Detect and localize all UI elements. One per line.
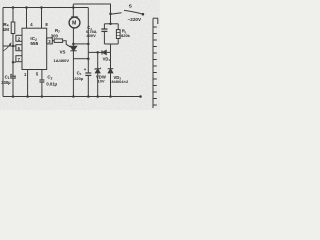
op-amp U1: IC2 555 timer box [16,28,52,69]
switch S [124,10,143,14]
neighbor figure edge (adjacent schematic sliver) [153,18,158,108]
motor M [69,17,80,28]
svg-text:330µ: 330µ [1,80,11,85]
svg-text:300: 300 [51,34,59,39]
svg-text:400V: 400V [86,33,96,38]
label R1 820k [121,29,131,39]
wire C4 bottom [103,31,105,44]
wire rail drop right [87,8,89,73]
svg-text:VS: VS [60,49,66,54]
wire top rail [3,7,88,9]
pin number labels [18,22,52,77]
label R4 [3,22,10,32]
wire R1 bottom [117,39,119,45]
capacitor C5 220u electrolytic [85,73,91,75]
svg-text:C2: C2 [47,75,52,81]
wire dropper drop to VD1 [110,44,112,52]
svg-text:1N4004×2: 1N4004×2 [110,79,129,84]
wire pin8 [41,8,43,29]
capacitor C2 0.01u [39,80,44,82]
potentiometer R4 wiper arrow [3,42,12,50]
node dots [12,6,142,98]
wire C2 bottom [41,82,43,97]
wire SCR cathode [72,51,74,97]
wire C5 bottom [87,75,89,96]
pin box 2 [16,35,22,41]
zener VDW [95,68,101,73]
potentiometer R4 1M body [11,22,15,34]
wire pot branch [12,8,14,23]
wire pin6 horizontal [3,45,16,47]
transistor VS thyristor [70,46,76,51]
wire motor feed from switch jog [72,4,74,18]
wire pin5 to C2 [41,70,43,81]
label VS 1A/400V [54,49,70,62]
svg-text:0.01µ: 0.01µ [46,82,57,87]
wire C1 bottom [12,78,14,96]
pin box 6 [16,45,22,51]
wire motor to SCR anode [72,28,74,47]
scan grain overlay [0,0,160,110]
svg-text:555: 555 [30,41,38,46]
wire zener VDW branch [97,52,99,96]
wire R1 top [117,24,119,30]
wire pin4 [26,8,28,29]
svg-text:820k: 820k [121,33,131,38]
label C2 0.01u [46,75,57,87]
wire diode VD3 branch [110,52,112,96]
wire dropper top bus [104,23,118,25]
wire VD1 horizontal [88,51,110,53]
svg-text:VD1: VD1 [103,56,111,62]
wire jog to switch [73,4,110,24]
diode VD3 [108,69,114,73]
svg-text:+: + [10,73,13,78]
label VDW 10V [96,74,106,83]
label IC2 555 [30,36,38,46]
wire pin3 to R7 [52,40,54,42]
wire C4 top [103,24,105,29]
wire bottom rail [3,96,141,98]
label C5 220u plus [74,67,87,81]
label C1 330u plus sign [1,73,13,85]
wire pot bottom to pin6 and C1 [12,34,14,76]
svg-text:+: + [84,67,87,72]
resistor R7 300 body [54,39,62,43]
resistor R1 820k body [116,30,120,39]
capacitor C4 dropper 0.75A 400V [101,29,107,31]
label C4 0.75A 400V [86,25,97,38]
diode VD1 [102,50,106,54]
wire pin7 horizontal [13,61,16,63]
switch S end dot [142,13,145,16]
wire pin1 [27,70,29,97]
wire switch lead [111,13,122,14]
pin box 7 [16,56,22,62]
capacitor C1 330u electrolytic [10,76,16,78]
svg-text:220µ: 220µ [74,76,84,81]
svg-text:1M: 1M [3,27,10,32]
svg-text:10V: 10V [97,79,104,84]
svg-text:M: M [72,21,76,27]
svg-text:~220V: ~220V [128,17,142,22]
label R7 300 [51,28,60,39]
label VD3 1N4004x2 [110,75,129,84]
wire SCR anode to rail-drop node [73,43,88,45]
wire left border [2,8,4,97]
wire R7 to gate [63,41,71,47]
wire dropper bottom bus [104,43,118,45]
svg-text:1A/400V: 1A/400V [54,58,70,63]
wire supply node horizontal [73,58,88,60]
pin box 3 [47,38,53,44]
